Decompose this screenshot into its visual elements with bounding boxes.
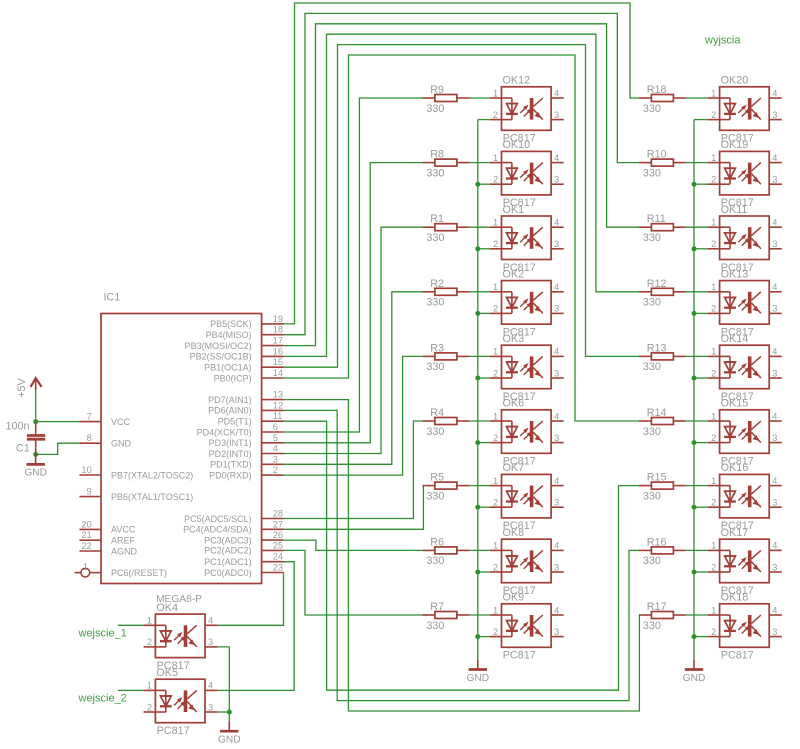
svg-text:R15: R15 xyxy=(647,472,667,484)
svg-text:4: 4 xyxy=(772,541,777,551)
svg-text:PC817: PC817 xyxy=(721,650,754,662)
svg-text:6: 6 xyxy=(273,422,278,432)
svg-text:1: 1 xyxy=(711,605,716,615)
svg-text:3: 3 xyxy=(554,498,559,508)
svg-text:3: 3 xyxy=(208,637,213,647)
svg-text:4: 4 xyxy=(772,282,777,292)
svg-text:12: 12 xyxy=(273,400,283,410)
svg-text:26: 26 xyxy=(273,530,283,540)
svg-text:4: 4 xyxy=(772,153,777,163)
svg-text:OK16: OK16 xyxy=(721,462,749,474)
svg-text:19: 19 xyxy=(273,314,283,324)
svg-text:GND: GND xyxy=(111,439,132,449)
svg-text:2: 2 xyxy=(493,433,498,443)
svg-text:7: 7 xyxy=(87,412,92,422)
svg-text:OK17: OK17 xyxy=(721,527,749,539)
svg-text:OK7: OK7 xyxy=(503,462,525,474)
svg-text:2: 2 xyxy=(493,110,498,120)
svg-text:330: 330 xyxy=(426,555,444,567)
svg-text:1: 1 xyxy=(711,541,716,551)
svg-text:PC1(ADC1): PC1(ADC1) xyxy=(204,557,252,567)
svg-text:4: 4 xyxy=(554,476,559,486)
svg-text:OK12: OK12 xyxy=(503,75,531,87)
svg-text:PB1(OC1A): PB1(OC1A) xyxy=(204,363,252,373)
svg-text:PC817: PC817 xyxy=(503,650,536,662)
svg-text:4: 4 xyxy=(772,411,777,421)
svg-text:OK2: OK2 xyxy=(503,268,525,280)
svg-text:2: 2 xyxy=(711,110,716,120)
svg-text:3: 3 xyxy=(554,175,559,185)
svg-text:3: 3 xyxy=(772,304,777,314)
svg-text:C1: C1 xyxy=(16,442,30,454)
svg-text:+5V: +5V xyxy=(16,377,28,397)
svg-text:2: 2 xyxy=(711,239,716,249)
svg-text:AVCC: AVCC xyxy=(111,525,136,535)
svg-text:2: 2 xyxy=(493,562,498,572)
svg-text:PC3(ADC3): PC3(ADC3) xyxy=(204,535,252,545)
svg-text:13: 13 xyxy=(273,390,283,400)
svg-text:330: 330 xyxy=(426,426,444,438)
svg-text:PB6(XTAL1/TOSC1): PB6(XTAL1/TOSC1) xyxy=(111,492,193,502)
svg-text:3: 3 xyxy=(273,454,278,464)
svg-text:wejscie_2: wejscie_2 xyxy=(78,692,127,704)
svg-text:R16: R16 xyxy=(647,536,667,548)
svg-text:18: 18 xyxy=(273,325,283,335)
svg-text:PC6(/RESET): PC6(/RESET) xyxy=(111,568,167,578)
svg-text:3: 3 xyxy=(772,627,777,637)
svg-text:PB2(SS/OC1B): PB2(SS/OC1B) xyxy=(190,352,252,362)
svg-text:AGND: AGND xyxy=(111,546,138,556)
svg-text:2: 2 xyxy=(147,702,152,712)
svg-text:OK5: OK5 xyxy=(156,667,178,679)
svg-text:PD1(TXD): PD1(TXD) xyxy=(210,460,252,470)
svg-text:PD7(AIN1): PD7(AIN1) xyxy=(208,395,252,405)
svg-text:4: 4 xyxy=(554,282,559,292)
svg-text:4: 4 xyxy=(772,347,777,357)
svg-text:R8: R8 xyxy=(430,149,444,161)
svg-text:4: 4 xyxy=(273,444,278,454)
svg-text:1: 1 xyxy=(711,476,716,486)
svg-text:R10: R10 xyxy=(647,149,667,161)
svg-text:1: 1 xyxy=(493,88,498,98)
svg-text:3: 3 xyxy=(554,627,559,637)
svg-text:1: 1 xyxy=(711,218,716,228)
svg-text:R11: R11 xyxy=(647,213,666,225)
svg-text:1: 1 xyxy=(711,282,716,292)
svg-text:OK14: OK14 xyxy=(721,333,749,345)
svg-text:330: 330 xyxy=(643,426,661,438)
svg-text:330: 330 xyxy=(426,620,444,632)
svg-text:4: 4 xyxy=(554,541,559,551)
svg-text:OK4: OK4 xyxy=(156,602,178,614)
svg-text:R2: R2 xyxy=(430,278,444,290)
svg-text:wyjscia: wyjscia xyxy=(704,35,741,47)
svg-text:330: 330 xyxy=(643,361,661,373)
svg-text:1: 1 xyxy=(711,411,716,421)
svg-text:8: 8 xyxy=(87,433,92,443)
svg-text:1: 1 xyxy=(493,605,498,615)
svg-text:11: 11 xyxy=(273,411,283,421)
svg-text:330: 330 xyxy=(426,103,444,115)
svg-text:1: 1 xyxy=(493,411,498,421)
svg-text:3: 3 xyxy=(554,368,559,378)
svg-text:16: 16 xyxy=(273,346,283,356)
svg-text:1: 1 xyxy=(493,153,498,163)
svg-text:PD6(AIN0): PD6(AIN0) xyxy=(208,406,252,416)
svg-text:2: 2 xyxy=(147,637,152,647)
svg-text:1: 1 xyxy=(493,282,498,292)
svg-text:R9: R9 xyxy=(430,84,444,96)
svg-text:4: 4 xyxy=(554,347,559,357)
svg-text:15: 15 xyxy=(273,357,283,367)
svg-text:1: 1 xyxy=(711,153,716,163)
svg-text:4: 4 xyxy=(554,605,559,615)
svg-text:R12: R12 xyxy=(647,278,667,290)
svg-text:3: 3 xyxy=(772,175,777,185)
svg-text:OK13: OK13 xyxy=(721,268,749,280)
svg-text:OK6: OK6 xyxy=(503,398,525,410)
svg-text:PB0(ICP): PB0(ICP) xyxy=(214,373,252,383)
svg-text:R1: R1 xyxy=(430,213,444,225)
svg-text:330: 330 xyxy=(643,555,661,567)
svg-text:OK11: OK11 xyxy=(721,204,748,216)
svg-text:4: 4 xyxy=(554,88,559,98)
svg-text:330: 330 xyxy=(643,620,661,632)
svg-text:PC817: PC817 xyxy=(157,725,190,737)
svg-text:2: 2 xyxy=(711,498,716,508)
svg-text:4: 4 xyxy=(772,476,777,486)
svg-text:4: 4 xyxy=(772,605,777,615)
svg-text:GND: GND xyxy=(24,468,47,479)
svg-text:28: 28 xyxy=(273,509,283,519)
svg-text:330: 330 xyxy=(426,361,444,373)
svg-text:R6: R6 xyxy=(430,536,444,548)
svg-text:330: 330 xyxy=(643,232,661,244)
svg-text:4: 4 xyxy=(554,218,559,228)
svg-text:GND: GND xyxy=(466,673,489,684)
svg-text:2: 2 xyxy=(711,433,716,443)
svg-text:OK15: OK15 xyxy=(721,398,749,410)
svg-text:2: 2 xyxy=(493,239,498,249)
svg-text:10: 10 xyxy=(81,465,91,475)
svg-text:2: 2 xyxy=(711,368,716,378)
svg-text:AREF: AREF xyxy=(111,536,136,546)
svg-text:25: 25 xyxy=(273,540,283,550)
svg-text:21: 21 xyxy=(81,530,91,540)
svg-text:R13: R13 xyxy=(647,342,667,354)
svg-text:2: 2 xyxy=(493,175,498,185)
svg-text:PC4(ADC4/SDA): PC4(ADC4/SDA) xyxy=(183,525,252,535)
svg-text:R3: R3 xyxy=(430,342,444,354)
svg-text:4: 4 xyxy=(554,153,559,163)
svg-text:PD0(RXD): PD0(RXD) xyxy=(209,470,252,480)
svg-text:3: 3 xyxy=(772,498,777,508)
svg-text:2: 2 xyxy=(493,627,498,637)
svg-text:OK20: OK20 xyxy=(721,75,749,87)
svg-text:27: 27 xyxy=(273,519,283,529)
svg-text:1: 1 xyxy=(493,476,498,486)
svg-text:OK1: OK1 xyxy=(503,204,525,216)
svg-text:1: 1 xyxy=(493,218,498,228)
svg-text:4: 4 xyxy=(554,411,559,421)
svg-text:9: 9 xyxy=(87,487,92,497)
svg-text:PD4(XCK/T0): PD4(XCK/T0) xyxy=(197,427,252,437)
svg-text:2: 2 xyxy=(711,304,716,314)
svg-text:1: 1 xyxy=(711,88,716,98)
svg-text:OK10: OK10 xyxy=(503,139,531,151)
svg-text:100n: 100n xyxy=(5,421,29,433)
svg-text:PB3(MOSI/OC2): PB3(MOSI/OC2) xyxy=(185,341,252,351)
svg-text:3: 3 xyxy=(772,368,777,378)
svg-text:GND: GND xyxy=(683,673,706,684)
svg-text:20: 20 xyxy=(81,519,91,529)
svg-text:14: 14 xyxy=(273,368,283,378)
svg-text:PB7(XTAL2/TOSC2): PB7(XTAL2/TOSC2) xyxy=(111,470,193,480)
svg-text:23: 23 xyxy=(273,563,283,573)
svg-text:R17: R17 xyxy=(647,601,667,613)
svg-text:330: 330 xyxy=(426,297,444,309)
svg-text:PC5(ADC5/SCL): PC5(ADC5/SCL) xyxy=(184,514,252,524)
svg-text:330: 330 xyxy=(643,490,661,502)
svg-text:OK8: OK8 xyxy=(503,527,525,539)
svg-text:2: 2 xyxy=(493,368,498,378)
svg-text:GND: GND xyxy=(218,735,241,746)
svg-text:1: 1 xyxy=(711,347,716,357)
svg-text:R7: R7 xyxy=(430,601,444,613)
svg-text:3: 3 xyxy=(772,562,777,572)
svg-text:OK19: OK19 xyxy=(721,139,749,151)
svg-text:17: 17 xyxy=(273,336,283,346)
svg-text:5: 5 xyxy=(273,433,278,443)
svg-text:330: 330 xyxy=(643,167,661,179)
svg-text:PD3(INT1): PD3(INT1) xyxy=(209,438,252,448)
svg-text:2: 2 xyxy=(711,175,716,185)
svg-text:2: 2 xyxy=(711,562,716,572)
svg-text:3: 3 xyxy=(208,702,213,712)
svg-text:4: 4 xyxy=(208,681,213,691)
svg-text:OK18: OK18 xyxy=(721,592,749,604)
svg-text:330: 330 xyxy=(426,167,444,179)
svg-text:PB4(MISO): PB4(MISO) xyxy=(206,330,252,340)
svg-text:R5: R5 xyxy=(430,472,444,484)
svg-text:R18: R18 xyxy=(647,84,667,96)
svg-text:3: 3 xyxy=(772,239,777,249)
svg-text:R4: R4 xyxy=(430,407,444,419)
svg-text:3: 3 xyxy=(554,110,559,120)
svg-text:1: 1 xyxy=(493,347,498,357)
svg-text:330: 330 xyxy=(643,103,661,115)
svg-text:VCC: VCC xyxy=(111,417,131,427)
svg-text:3: 3 xyxy=(772,110,777,120)
svg-text:2: 2 xyxy=(711,627,716,637)
svg-text:2: 2 xyxy=(493,498,498,508)
svg-text:24: 24 xyxy=(273,552,283,562)
svg-text:PB5(SCK): PB5(SCK) xyxy=(210,319,252,329)
svg-text:PC0(ADC0): PC0(ADC0) xyxy=(204,568,252,578)
svg-text:1: 1 xyxy=(83,562,88,572)
svg-text:OK9: OK9 xyxy=(503,592,525,604)
svg-text:3: 3 xyxy=(554,304,559,314)
svg-text:OK3: OK3 xyxy=(503,333,525,345)
svg-text:22: 22 xyxy=(81,541,91,551)
svg-text:wejscie_1: wejscie_1 xyxy=(78,627,127,639)
svg-text:1: 1 xyxy=(147,616,152,626)
svg-text:PD5(T1): PD5(T1) xyxy=(218,417,252,427)
svg-text:1: 1 xyxy=(147,681,152,691)
svg-text:1: 1 xyxy=(493,541,498,551)
svg-text:2: 2 xyxy=(273,465,278,475)
svg-text:3: 3 xyxy=(772,433,777,443)
svg-text:PD2(INT0): PD2(INT0) xyxy=(209,449,252,459)
svg-text:4: 4 xyxy=(772,88,777,98)
svg-text:2: 2 xyxy=(493,304,498,314)
svg-text:3: 3 xyxy=(554,239,559,249)
svg-text:330: 330 xyxy=(643,297,661,309)
svg-text:3: 3 xyxy=(554,562,559,572)
svg-text:330: 330 xyxy=(426,232,444,244)
svg-text:3: 3 xyxy=(554,433,559,443)
svg-text:PC2(ADC2): PC2(ADC2) xyxy=(204,546,252,556)
svg-text:4: 4 xyxy=(772,218,777,228)
svg-text:IC1: IC1 xyxy=(104,292,121,304)
svg-text:4: 4 xyxy=(208,616,213,626)
svg-text:R14: R14 xyxy=(647,407,667,419)
svg-text:330: 330 xyxy=(426,490,444,502)
